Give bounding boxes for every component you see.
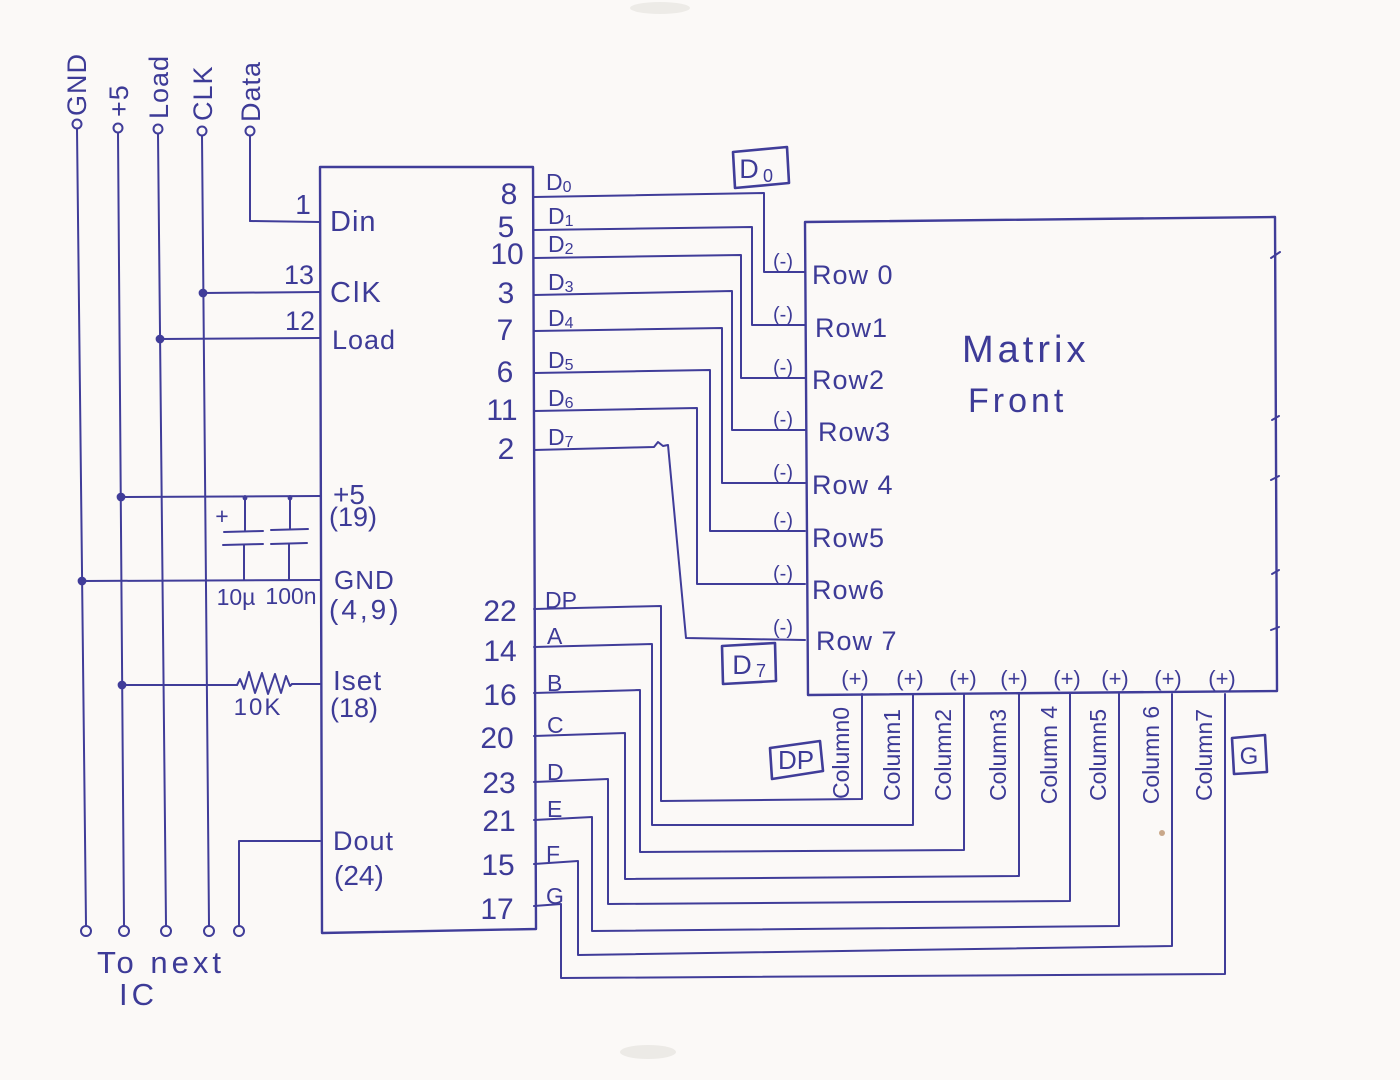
svg-text:7: 7 xyxy=(497,314,514,347)
pin number 12 xyxy=(285,306,315,336)
net label Column1 xyxy=(879,709,905,801)
svg-text:(-): (-) xyxy=(773,510,793,532)
wire D3 pin3 to Row3 xyxy=(534,291,805,430)
polarity label (+) Column2 xyxy=(949,666,977,691)
svg-text:23: 23 xyxy=(482,767,515,800)
svg-text:14: 14 xyxy=(483,635,516,668)
polarity label (-) Row2 xyxy=(773,357,793,379)
capacitor C1 lead bottom xyxy=(243,545,245,580)
pin number 15 xyxy=(481,849,514,882)
svg-text:11: 11 xyxy=(486,394,517,427)
net label Column5 xyxy=(1085,709,1111,801)
polarity label (+) Column0 xyxy=(841,666,869,691)
pin number 1 xyxy=(295,189,311,220)
pin number 3 xyxy=(498,277,515,310)
svg-text:GND: GND xyxy=(62,53,92,116)
svg-text:Matrix: Matrix xyxy=(962,329,1089,371)
net label Column0 xyxy=(828,707,854,799)
polarity label (-) Row1 xyxy=(773,304,793,326)
svg-text:8: 8 xyxy=(501,178,518,211)
svg-text:Row 4: Row 4 xyxy=(812,470,894,500)
svg-text:Row2: Row2 xyxy=(812,365,885,395)
svg-text:(+): (+) xyxy=(949,666,977,691)
pin label Row 7 xyxy=(816,626,898,656)
svg-text:20: 20 xyxy=(480,722,513,755)
svg-text:(+): (+) xyxy=(1208,666,1236,691)
net label CLK xyxy=(188,65,218,121)
svg-text:F: F xyxy=(546,841,560,867)
pin number 21 xyxy=(482,805,515,838)
svg-text:0: 0 xyxy=(763,166,773,186)
callout box D7 xyxy=(722,643,776,684)
svg-text:(24): (24) xyxy=(334,860,384,891)
pin number 2 xyxy=(498,433,515,466)
resistor R 10K xyxy=(237,672,292,694)
polarity label (-) Row7 xyxy=(773,617,793,639)
svg-text:(+): (+) xyxy=(841,666,869,691)
svg-text:(-): (-) xyxy=(773,304,793,326)
svg-text:Iset: Iset xyxy=(333,665,382,696)
svg-text:(-): (-) xyxy=(773,462,793,484)
node Load rail terminal (top) xyxy=(154,125,163,134)
value label 100n xyxy=(265,583,316,609)
pin label Din xyxy=(330,206,377,238)
svg-text:+: + xyxy=(215,503,228,529)
pin number 13 xyxy=(284,260,314,290)
svg-text:B: B xyxy=(547,670,562,696)
svg-text:(18): (18) xyxy=(330,693,378,723)
pin label Row 0 xyxy=(812,260,894,290)
polarity label (+) Column3 xyxy=(1000,666,1028,691)
svg-text:(19): (19) xyxy=(329,502,377,532)
capacitor C1 10u plates xyxy=(223,531,263,545)
pin label Row 4 xyxy=(812,470,894,500)
svg-text:To next: To next xyxy=(97,945,225,980)
svg-text:GND: GND xyxy=(334,565,395,595)
pin label Row3 xyxy=(818,417,891,447)
svg-text:Din: Din xyxy=(330,206,377,238)
svg-text:CLK: CLK xyxy=(188,65,218,121)
net label Load xyxy=(144,55,174,119)
junction Load xyxy=(157,336,164,343)
svg-text:Column2: Column2 xyxy=(930,709,956,801)
polarity label (-) Row6 xyxy=(773,563,793,585)
net label D6 xyxy=(548,385,574,412)
net label D7 xyxy=(548,424,574,451)
svg-text:Row5: Row5 xyxy=(812,523,885,553)
polarity label (-) Row0 xyxy=(773,251,793,273)
wire tick marks on matrix right edge xyxy=(1271,252,1280,630)
node Dout terminal xyxy=(234,926,244,936)
svg-text:DP: DP xyxy=(545,587,577,613)
svg-text:(-): (-) xyxy=(773,251,793,273)
svg-text:Column 4: Column 4 xyxy=(1036,706,1062,805)
svg-text:D: D xyxy=(739,154,759,184)
pin number 5 xyxy=(498,211,515,244)
junction Iset at +5 rail xyxy=(119,682,126,689)
svg-text:13: 13 xyxy=(284,260,314,290)
svg-text:(+): (+) xyxy=(1053,666,1081,691)
net label D5 xyxy=(548,347,574,374)
pin number 17 xyxy=(480,893,513,926)
polarity label (+) Column6 xyxy=(1154,666,1182,691)
polarity label (-) Row3 xyxy=(773,409,793,431)
node GND rail terminal (bottom) xyxy=(81,926,91,936)
pin label GND (4,9) xyxy=(329,565,402,625)
svg-text:Row3: Row3 xyxy=(818,417,891,447)
net label Column2 xyxy=(930,709,956,801)
svg-text:IC: IC xyxy=(119,977,158,1012)
net label Column3 xyxy=(985,709,1011,801)
svg-text:D: D xyxy=(547,759,564,785)
wire D1 pin5 to Row1 xyxy=(534,227,805,325)
pin label Row2 xyxy=(812,365,885,395)
pin number 16 xyxy=(483,679,516,712)
LED matrix module body xyxy=(805,217,1277,695)
pin number 6 xyxy=(497,356,514,389)
pin label Clk xyxy=(330,277,383,309)
svg-text:Column3: Column3 xyxy=(985,709,1011,801)
op-amp / driver IC U1 body xyxy=(320,167,536,933)
net label D4 xyxy=(548,305,574,332)
wire CLK to Clk pin 13 xyxy=(203,292,320,293)
wire Data to Din pin 1 xyxy=(250,221,320,222)
pin number 14 xyxy=(483,635,516,668)
svg-text:(4,9): (4,9) xyxy=(329,594,402,625)
svg-text:22: 22 xyxy=(483,595,516,628)
svg-text:Dout: Dout xyxy=(333,826,394,856)
wire G pin17 to Column7 xyxy=(534,694,1225,978)
wire E pin21 to Column5 xyxy=(534,694,1119,931)
pin label E xyxy=(547,796,562,822)
wire DP pin22 to Column0 xyxy=(534,606,862,801)
net label D3 xyxy=(548,269,574,296)
wire +5 rail vertical xyxy=(118,133,124,925)
pin number 8 xyxy=(501,178,518,211)
wire GND to pins 4,9 xyxy=(82,580,320,581)
svg-text:6: 6 xyxy=(497,356,514,389)
net label Column4 xyxy=(1036,706,1062,805)
svg-text:Load: Load xyxy=(144,55,174,119)
wire D5 pin6 to Row5 xyxy=(534,370,805,531)
label To next IC xyxy=(97,945,225,1012)
pin label Row5 xyxy=(812,523,885,553)
wire +5 rail to resistor xyxy=(122,684,237,686)
net label Data xyxy=(236,61,266,122)
net label +5 xyxy=(104,84,134,117)
wire F pin15 to Column6 xyxy=(534,694,1172,955)
svg-text:(-): (-) xyxy=(773,409,793,431)
node Load rail terminal (bottom) xyxy=(161,926,171,936)
net label GND xyxy=(62,53,92,116)
capacitor C1 10u lead top xyxy=(243,496,248,530)
svg-text:+5: +5 xyxy=(104,84,134,117)
label Front xyxy=(968,382,1067,420)
junction CLK xyxy=(200,290,207,297)
svg-text:10K: 10K xyxy=(234,694,283,721)
pin number 11 xyxy=(486,394,517,427)
svg-text:A: A xyxy=(547,623,563,649)
svg-text:Column1: Column1 xyxy=(879,709,905,801)
svg-text:G: G xyxy=(546,883,564,909)
value label 10K xyxy=(234,694,283,721)
polarity label (-) Row4 xyxy=(773,462,793,484)
svg-text:(-): (-) xyxy=(773,563,793,585)
svg-text:(-): (-) xyxy=(773,617,793,639)
wire D6 pin11 to Row6 xyxy=(534,408,805,584)
svg-text:Column0: Column0 xyxy=(828,707,854,799)
svg-text:Row1: Row1 xyxy=(815,313,888,343)
svg-text:10µ: 10µ xyxy=(217,584,256,610)
pin number 23 xyxy=(482,767,515,800)
wire B pin16 to Column2 xyxy=(534,690,964,852)
pin label Dout (24) xyxy=(333,826,394,891)
svg-text:Load: Load xyxy=(332,325,396,355)
node Data rail terminal (top) xyxy=(246,127,255,136)
wire GND rail vertical xyxy=(77,129,86,925)
wire D2 pin10 to Row2 xyxy=(534,255,805,378)
pin label A xyxy=(547,623,563,649)
svg-text:12: 12 xyxy=(285,306,315,336)
wire C pin20 to Column3 xyxy=(534,694,1019,879)
svg-text:21: 21 xyxy=(482,805,515,838)
svg-text:3: 3 xyxy=(498,277,515,310)
node GND rail terminal (top) xyxy=(73,120,82,129)
callout box DP xyxy=(770,741,823,779)
pin label Load xyxy=(332,325,396,355)
svg-text:Row 7: Row 7 xyxy=(816,626,898,656)
svg-text:100n: 100n xyxy=(265,583,316,609)
svg-text:C: C xyxy=(547,712,564,738)
node CLK rail terminal (bottom) xyxy=(204,926,214,936)
svg-text:Data: Data xyxy=(236,61,266,122)
pin number 10 xyxy=(490,238,523,271)
svg-text:Column5: Column5 xyxy=(1085,709,1111,801)
pin label F xyxy=(546,841,560,867)
svg-text:16: 16 xyxy=(483,679,516,712)
svg-text:2: 2 xyxy=(498,433,515,466)
svg-text:1: 1 xyxy=(295,189,311,220)
polarity label (+) Column1 xyxy=(896,666,924,691)
pin label Iset (18) xyxy=(330,665,382,723)
pin label G xyxy=(546,883,564,909)
svg-text:17: 17 xyxy=(480,893,513,926)
capacitor C2 lead bottom xyxy=(288,544,290,580)
polarity label (+) Column7 xyxy=(1208,666,1236,691)
svg-text:G: G xyxy=(1240,743,1259,770)
label Matrix xyxy=(962,329,1089,371)
node CLK rail terminal (top) xyxy=(198,127,207,136)
net label D0 xyxy=(546,169,572,196)
capacitor C2 100n lead top xyxy=(288,496,293,529)
wire D pin23 to Column4 xyxy=(534,694,1070,904)
polarity label (+) Column4 xyxy=(1053,666,1081,691)
pin label +5 (19) xyxy=(329,479,377,532)
net label Column6 xyxy=(1138,706,1164,804)
wire Load rail vertical xyxy=(158,134,166,925)
svg-text:Row 0: Row 0 xyxy=(812,260,894,290)
wire Data rail vertical xyxy=(249,136,251,221)
wire A pin14 to Column1 xyxy=(534,644,913,825)
pin number 7 xyxy=(497,314,514,347)
polarity label (-) Row5 xyxy=(773,510,793,532)
pin label D xyxy=(547,759,564,785)
node +5 rail terminal (top) xyxy=(114,124,123,133)
callout box D0 xyxy=(733,147,789,188)
svg-text:Front: Front xyxy=(968,382,1067,420)
svg-text:E: E xyxy=(547,796,562,822)
svg-text:Row6: Row6 xyxy=(812,575,885,605)
callout box G xyxy=(1232,735,1267,774)
svg-text:(+): (+) xyxy=(896,666,924,691)
wire +5 to pin 19 xyxy=(121,496,320,497)
polarity label (+) Column5 xyxy=(1101,666,1129,691)
pin number 22 xyxy=(483,595,516,628)
svg-text:DP: DP xyxy=(778,745,814,775)
pin label Row1 xyxy=(815,313,888,343)
svg-text:(-): (-) xyxy=(773,357,793,379)
capacitor C1 polarity + xyxy=(215,503,228,529)
svg-text:ClK: ClK xyxy=(330,277,383,309)
svg-text:(+): (+) xyxy=(1000,666,1028,691)
svg-text:(+): (+) xyxy=(1154,666,1182,691)
pin label B xyxy=(547,670,562,696)
wire CLK rail vertical xyxy=(202,136,209,925)
svg-text:10: 10 xyxy=(490,238,523,271)
value label 10u xyxy=(217,584,256,610)
junction GND xyxy=(79,578,86,585)
wire D4 pin7 to Row4 xyxy=(534,328,805,483)
capacitor C2 100n plates xyxy=(271,529,308,544)
svg-text:(+): (+) xyxy=(1101,666,1129,691)
svg-text:Column7: Column7 xyxy=(1191,709,1217,801)
svg-text:D: D xyxy=(732,650,752,680)
wire Load to Load pin 12 xyxy=(160,338,320,339)
net label D2 xyxy=(548,231,574,258)
wire resistor to Iset pin 18 xyxy=(292,683,320,685)
pin label DP xyxy=(545,587,577,613)
svg-text:7: 7 xyxy=(756,661,766,681)
wire D0 pin8 to Row0 xyxy=(534,193,805,272)
net label Column7 xyxy=(1191,709,1217,801)
pin label C xyxy=(547,712,564,738)
node +5 rail terminal (bottom) xyxy=(119,926,129,936)
svg-text:Column 6: Column 6 xyxy=(1138,706,1164,804)
junction +5 xyxy=(118,494,125,501)
wire Dout pin 24 to next IC terminal xyxy=(239,841,320,925)
wire D7 pin2 to Row7 xyxy=(534,442,805,640)
svg-text:15: 15 xyxy=(481,849,514,882)
pin label Row6 xyxy=(812,575,885,605)
pin number 20 xyxy=(480,722,513,755)
net label D1 xyxy=(548,203,574,230)
